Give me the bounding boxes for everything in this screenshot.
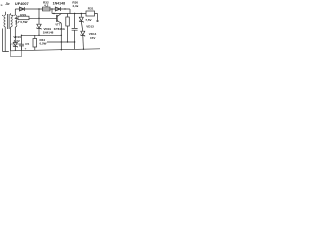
svg-text:+: + — [25, 47, 27, 51]
wire secondary bottom — [10, 27, 12, 51]
node VD16 label — [13, 35, 21, 43]
resistor R31 — [86, 11, 95, 16]
wire 1N4148 drop — [51, 9, 53, 14]
node junction low rail dots — [61, 41, 76, 42]
node junction diode left — [51, 8, 65, 9]
node zener labels — [85, 18, 96, 40]
node VT7 label — [54, 24, 66, 31]
wire base line — [15, 17, 56, 19]
wire bottom rail — [11, 49, 100, 51]
inductor L1 polarity dot — [14, 15, 15, 16]
svg-text:KT815A: KT815A — [54, 27, 66, 31]
node junction base-VD19 — [38, 18, 39, 19]
node R31 label — [88, 6, 94, 10]
wire L1 top to rail — [14, 9, 16, 15]
svg-text:4,2: 4,2 — [44, 4, 49, 8]
transformer T1 primary winding — [4, 15, 6, 27]
transformer T1 secondary winding — [11, 15, 13, 27]
wire output — [95, 14, 98, 21]
zener VD14 — [81, 31, 85, 36]
zener VD13 — [79, 14, 83, 23]
node 1N4148 label — [53, 1, 66, 5]
transistor VT7 — [56, 15, 58, 22]
wire primary bottom — [4, 27, 6, 52]
wire mid rail — [22, 34, 62, 36]
wire lower-left return — [3, 29, 9, 52]
diode VD11 UF4007 — [19, 7, 24, 11]
capacitor C6 — [72, 14, 78, 50]
transformer T1 polarity dots — [2, 15, 13, 16]
transformer T1 core — [8, 14, 10, 29]
svg-text:1N4148: 1N4148 — [43, 30, 54, 34]
wire top rail — [15, 8, 70, 10]
svg-text:C5: C5 — [25, 42, 29, 46]
node output terminal — [97, 20, 98, 21]
resistor R34 — [33, 39, 37, 48]
node junction bottom rail dots — [61, 49, 85, 51]
wire L1 bottom — [14, 27, 16, 43]
node UF4007 label — [15, 1, 29, 6]
wire emitter down — [60, 23, 62, 49]
node VD19 label — [43, 27, 54, 35]
svg-text:15V: 15V — [90, 36, 95, 40]
svg-text:3,3V: 3,3V — [14, 39, 20, 43]
resistor R35 — [66, 17, 70, 26]
svg-text:VD13: VD13 — [86, 25, 94, 29]
node R30 label — [72, 0, 78, 7]
svg-text:1N4148: 1N4148 — [53, 1, 66, 5]
svg-text:4,3к: 4,3к — [72, 4, 78, 8]
wire VD16 to bottom rail — [14, 46, 16, 50]
svg-text:ESS: ESS — [20, 13, 26, 17]
node AC input label — [1, 2, 10, 8]
resistor R32 — [43, 7, 51, 11]
svg-text:4,7 0,5W: 4,7 0,5W — [15, 20, 27, 24]
svg-text:0,5W: 0,5W — [40, 42, 47, 46]
wire collector rail — [52, 13, 86, 15]
diode VD12 1N4148 — [55, 7, 60, 11]
zener VD16 — [13, 43, 17, 48]
wire low rail — [47, 41, 75, 43]
node junction R32 left — [38, 8, 39, 9]
node junction mid rail dots — [21, 35, 62, 36]
wire VD19 to mid rail — [38, 29, 40, 36]
svg-text:7,5V: 7,5V — [85, 18, 91, 22]
svg-text:≈: ≈ — [1, 3, 3, 7]
capacitor C5 — [19, 35, 24, 50]
node R32 label — [43, 0, 49, 7]
wire primary top stub — [5, 12, 7, 15]
svg-text:R31: R31 — [88, 6, 94, 10]
node junction base-L1 — [15, 18, 16, 19]
svg-text:Др: Др — [6, 2, 10, 6]
wire secondary top stub — [10, 13, 12, 15]
inductor L1 winding — [15, 15, 17, 27]
resistor R33 fusible — [18, 16, 29, 20]
wire VD19 branch vertical — [38, 9, 40, 24]
wire VD14 to bottom rail — [82, 36, 85, 50]
module box outline — [11, 44, 22, 57]
node junction collector rail dots — [53, 13, 82, 14]
node R34 label — [40, 38, 47, 45]
zener VD19 — [37, 24, 41, 29]
node R33 label — [15, 13, 27, 24]
node C5 label — [25, 42, 30, 51]
wire between zeners — [81, 22, 83, 32]
wire top rail corner down — [69, 9, 71, 14]
svg-text:UF4007: UF4007 — [15, 1, 29, 6]
